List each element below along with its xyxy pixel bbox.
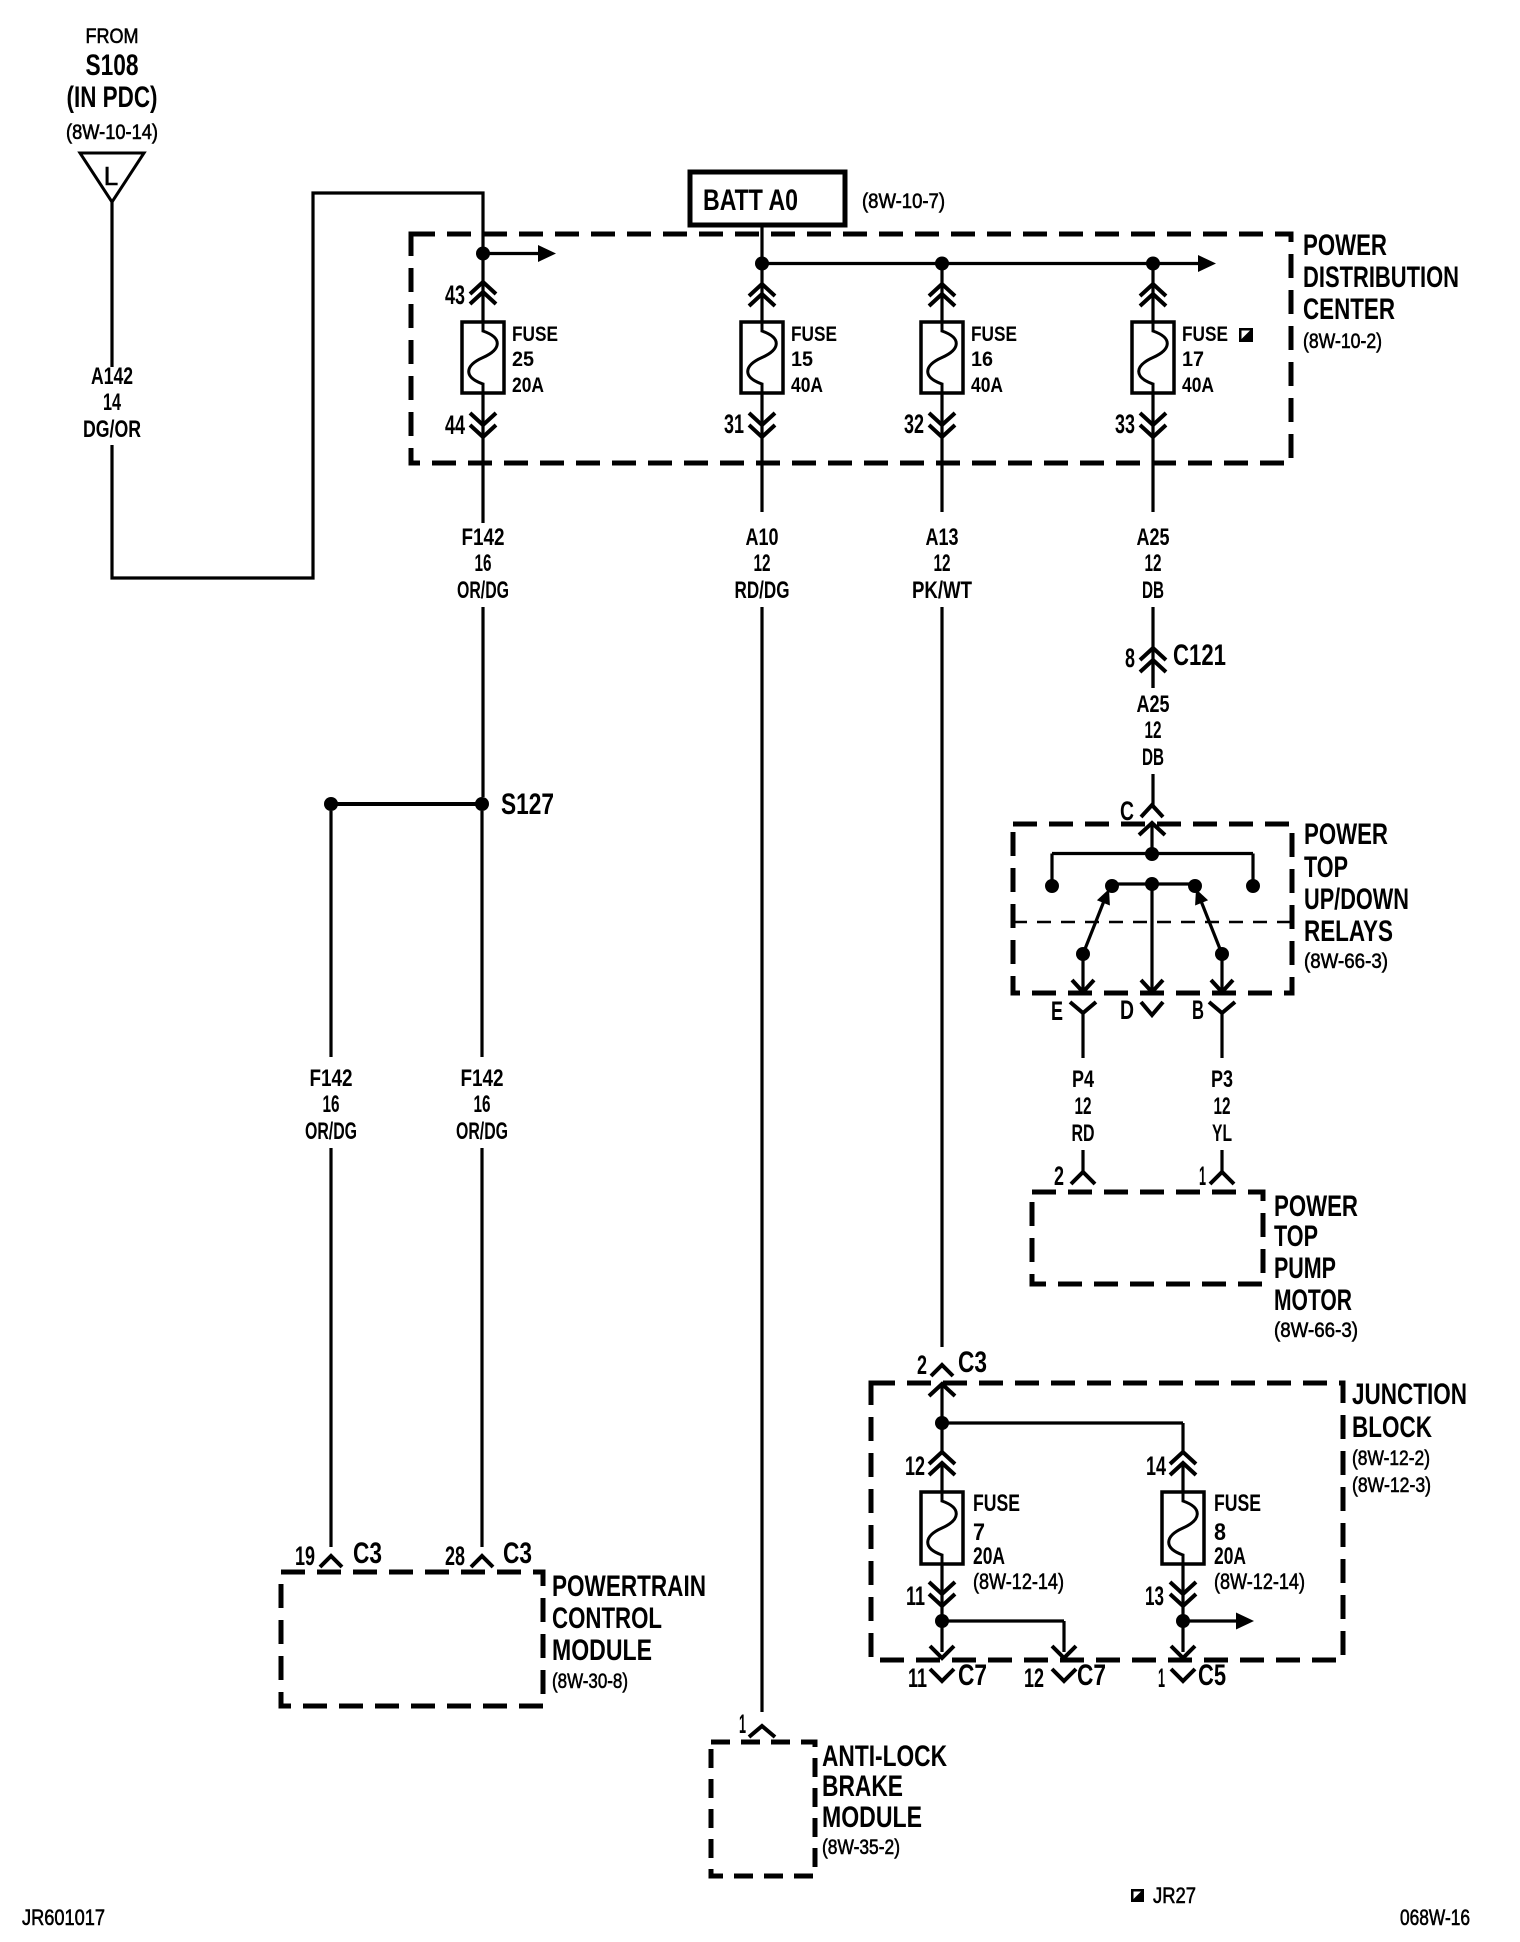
svg-text:C121: C121 [1173,639,1226,672]
svg-text:1: 1 [1199,1161,1206,1191]
svg-text:L: L [104,161,118,191]
svg-text:FUSE: FUSE [1214,1490,1261,1517]
svg-text:C7: C7 [1077,1659,1106,1692]
svg-text:FUSE: FUSE [791,323,837,346]
svg-text:2: 2 [917,1350,927,1380]
svg-text:12: 12 [1024,1663,1044,1693]
svg-text:POWERTRAIN: POWERTRAIN [552,1570,706,1603]
svg-text:OR/DG: OR/DG [456,1118,508,1145]
svg-text:PK/WT: PK/WT [912,577,972,604]
svg-text:FUSE: FUSE [1182,323,1228,346]
svg-text:13: 13 [1145,1581,1164,1611]
svg-text:POWER: POWER [1304,818,1388,851]
svg-text:TOP: TOP [1274,1220,1318,1253]
svg-text:RD: RD [1072,1120,1095,1147]
svg-text:BATT A0: BATT A0 [703,184,798,217]
svg-text:DB: DB [1142,577,1164,604]
svg-text:BLOCK: BLOCK [1352,1411,1432,1444]
svg-text:CENTER: CENTER [1303,293,1395,326]
svg-text:FUSE: FUSE [512,323,558,346]
svg-text:(8W-30-8): (8W-30-8) [552,1670,628,1693]
svg-text:40A: 40A [791,374,823,397]
svg-text:POWER: POWER [1303,229,1387,262]
svg-text:D: D [1120,995,1134,1025]
svg-text:OR/DG: OR/DG [457,577,509,604]
svg-text:A13: A13 [926,524,959,551]
svg-text:FUSE: FUSE [973,1490,1020,1517]
svg-text:BRAKE: BRAKE [822,1770,903,1803]
svg-text:2: 2 [1054,1161,1064,1191]
svg-text:(IN PDC): (IN PDC) [67,81,158,114]
svg-text:(8W-66-3): (8W-66-3) [1304,950,1388,973]
svg-text:20A: 20A [1214,1543,1246,1570]
svg-text:16: 16 [474,1091,491,1118]
svg-text:068W-16: 068W-16 [1400,1905,1470,1930]
svg-text:A25: A25 [1137,691,1170,718]
svg-text:31: 31 [724,409,744,439]
svg-text:P3: P3 [1211,1066,1233,1093]
svg-text:11: 11 [908,1663,927,1693]
svg-text:1: 1 [739,1709,746,1739]
svg-text:A10: A10 [746,524,779,551]
svg-text:JR27: JR27 [1153,1883,1196,1908]
svg-text:C5: C5 [1198,1659,1226,1692]
svg-text:12: 12 [1214,1093,1231,1120]
svg-text:MODULE: MODULE [822,1801,922,1834]
svg-text:E: E [1051,996,1063,1026]
svg-text:DB: DB [1142,744,1164,771]
svg-text:(8W-12-14): (8W-12-14) [973,1569,1064,1594]
svg-text:B: B [1192,995,1204,1025]
svg-text:JR601017: JR601017 [22,1905,105,1930]
svg-text:1: 1 [1158,1663,1165,1693]
svg-text:(8W-10-7): (8W-10-7) [862,190,945,213]
svg-text:28: 28 [445,1541,465,1571]
svg-text:DISTRIBUTION: DISTRIBUTION [1303,261,1459,294]
svg-text:RD/DG: RD/DG [735,577,790,604]
svg-text:40A: 40A [1182,374,1214,397]
svg-text:20A: 20A [512,374,544,397]
svg-text:12: 12 [1145,717,1162,744]
svg-text:(8W-12-3): (8W-12-3) [1352,1474,1431,1497]
svg-text:19: 19 [295,1541,315,1571]
svg-text:(8W-35-2): (8W-35-2) [822,1836,900,1859]
svg-text:17: 17 [1182,348,1204,371]
svg-text:ANTI-LOCK: ANTI-LOCK [822,1740,947,1773]
svg-text:12: 12 [934,550,951,577]
svg-text:PUMP: PUMP [1274,1252,1336,1285]
svg-text:F142: F142 [461,1065,504,1092]
svg-text:14: 14 [1146,1451,1166,1481]
svg-text:33: 33 [1115,409,1135,439]
svg-text:RELAYS: RELAYS [1304,915,1393,948]
svg-text:16: 16 [475,550,492,577]
svg-text:(8W-10-14): (8W-10-14) [66,121,158,144]
svg-text:C7: C7 [958,1659,987,1692]
svg-text:40A: 40A [971,374,1003,397]
svg-text:43: 43 [445,280,465,310]
svg-text:12: 12 [1145,550,1162,577]
svg-text:A142: A142 [91,363,133,390]
svg-text:S127: S127 [501,788,554,821]
svg-text:11: 11 [906,1581,925,1611]
svg-text:(8W-66-3): (8W-66-3) [1274,1319,1358,1342]
svg-text:C3: C3 [503,1537,532,1570]
svg-text:20A: 20A [973,1543,1005,1570]
svg-text:(8W-12-14): (8W-12-14) [1214,1569,1305,1594]
svg-text:MODULE: MODULE [552,1634,652,1667]
svg-text:12: 12 [754,550,771,577]
svg-text:(8W-12-2): (8W-12-2) [1352,1447,1430,1470]
svg-text:FROM: FROM [86,25,139,48]
svg-text:7: 7 [973,1519,985,1546]
svg-text:YL: YL [1212,1120,1232,1147]
svg-text:JUNCTION: JUNCTION [1352,1378,1467,1411]
svg-text:OR/DG: OR/DG [305,1118,357,1145]
svg-text:F142: F142 [462,524,505,551]
svg-text:44: 44 [445,410,465,440]
svg-text:P4: P4 [1072,1066,1094,1093]
svg-text:TOP: TOP [1304,851,1348,884]
svg-text:A25: A25 [1137,524,1170,551]
svg-text:DG/OR: DG/OR [83,416,141,443]
svg-text:MOTOR: MOTOR [1274,1284,1352,1317]
svg-text:32: 32 [904,409,924,439]
svg-text:CONTROL: CONTROL [552,1602,662,1635]
svg-text:FUSE: FUSE [971,323,1017,346]
svg-text:25: 25 [512,348,534,371]
svg-text:15: 15 [791,348,813,371]
svg-text:S108: S108 [86,49,139,82]
svg-text:16: 16 [971,348,993,371]
svg-text:F142: F142 [310,1065,353,1092]
svg-text:C3: C3 [958,1346,987,1379]
svg-text:12: 12 [1075,1093,1092,1120]
svg-text:8: 8 [1125,643,1135,673]
svg-text:14: 14 [103,389,121,416]
svg-text:16: 16 [323,1091,340,1118]
svg-text:UP/DOWN: UP/DOWN [1304,883,1409,916]
svg-text:C3: C3 [353,1537,382,1570]
svg-text:(8W-10-2): (8W-10-2) [1303,330,1382,353]
svg-text:POWER: POWER [1274,1190,1358,1223]
svg-text:8: 8 [1214,1519,1226,1546]
svg-text:12: 12 [905,1451,925,1481]
